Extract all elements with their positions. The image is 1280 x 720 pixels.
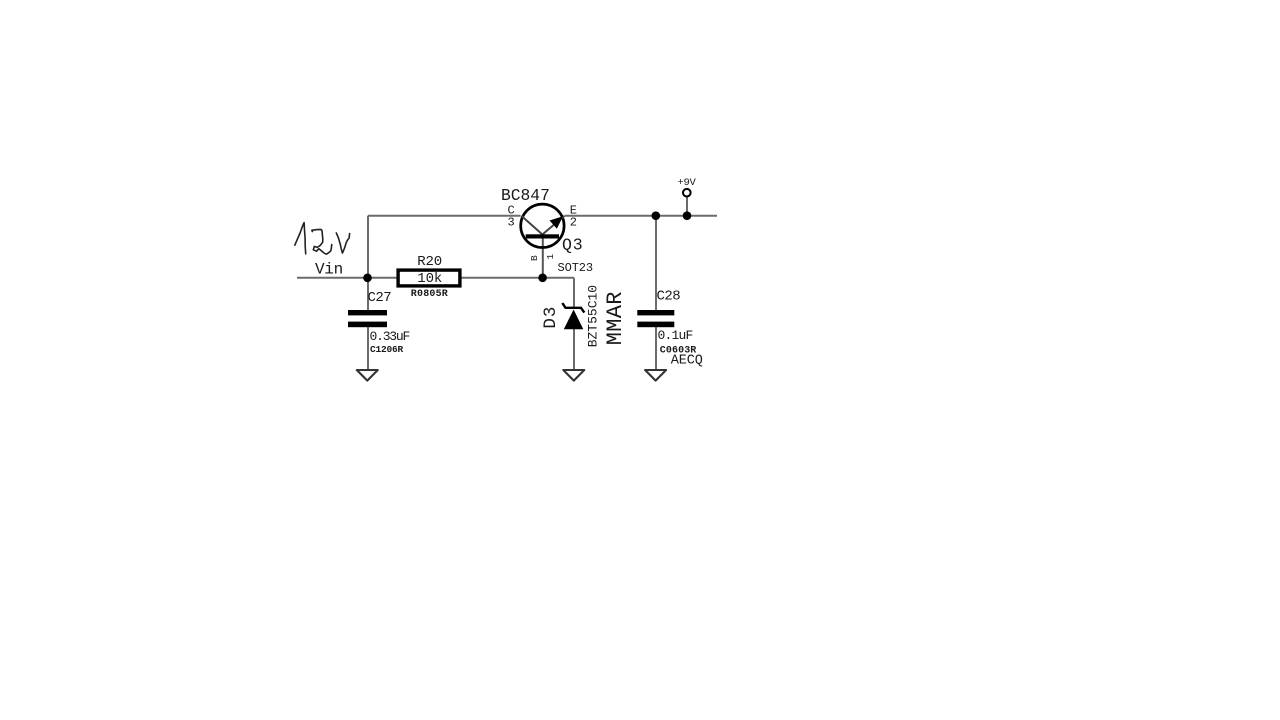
wire C28 top lead	[655, 216, 657, 311]
wire zener bottom lead	[573, 328, 575, 370]
capacitor C27	[348, 310, 387, 315]
ground under C27	[357, 370, 378, 381]
wire C28 bottom lead	[655, 326, 657, 370]
svg-text:SOT23: SOT23	[558, 261, 594, 275]
wire from R20 to base node	[460, 277, 574, 279]
svg-text:+9V: +9V	[678, 177, 697, 189]
svg-text:BC847: BC847	[501, 186, 550, 205]
wire base node down to zener	[573, 278, 575, 308]
node input junction	[363, 274, 372, 283]
svg-text:C27: C27	[368, 290, 392, 306]
wire input horizontal left segment	[297, 277, 399, 279]
power +9V terminal	[683, 189, 691, 197]
transistor emitter diagonal	[542, 216, 564, 235]
svg-text:C1206R: C1206R	[370, 344, 404, 355]
wire +9V lead	[686, 197, 688, 216]
ground under C28	[645, 370, 666, 381]
transistor Q3 circle	[521, 204, 564, 247]
svg-text:0.33uF: 0.33uF	[370, 329, 410, 344]
svg-text:MMAR: MMAR	[603, 291, 628, 345]
wire C27 top lead	[367, 278, 369, 311]
svg-text:B: B	[529, 255, 540, 261]
wire top rail to collector	[368, 215, 521, 217]
transistor collector diagonal	[521, 216, 542, 235]
wire C27 bottom lead	[367, 326, 369, 370]
svg-text:3: 3	[508, 216, 515, 230]
wire vertical from top rail to input node	[367, 216, 369, 278]
ground under D3	[563, 370, 584, 381]
transistor base bar	[526, 234, 559, 238]
capacitor C28	[637, 310, 674, 315]
wire Q3 base lead	[542, 237, 544, 278]
svg-text:BZT55C10: BZT55C10	[586, 285, 601, 347]
node C28 junction	[652, 211, 661, 220]
transistor emitter arrow	[550, 216, 564, 229]
svg-text:2: 2	[570, 216, 577, 230]
wire emitter rail to right	[565, 215, 718, 217]
zener diode D3	[562, 303, 584, 313]
svg-text:1: 1	[545, 254, 556, 260]
svg-text:0.1uF: 0.1uF	[658, 328, 693, 343]
svg-text:AECQ: AECQ	[671, 353, 703, 368]
node +9V junction	[683, 211, 692, 220]
svg-text:D3: D3	[541, 306, 561, 329]
node base junction	[538, 274, 547, 283]
svg-text:Q3: Q3	[562, 235, 583, 254]
svg-text:R0805R: R0805R	[411, 289, 448, 300]
svg-text:Vin: Vin	[315, 261, 343, 279]
svg-text:10k: 10k	[417, 271, 442, 287]
handwritten 12v annotation	[295, 223, 350, 255]
resistor R20	[398, 270, 460, 286]
svg-text:R20: R20	[417, 254, 442, 270]
svg-text:C28: C28	[657, 289, 681, 305]
